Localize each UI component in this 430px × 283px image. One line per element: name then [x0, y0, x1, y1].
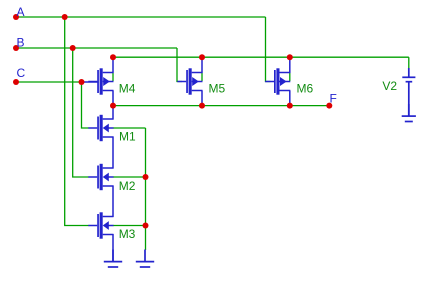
node dot A / M3-gate junction	[62, 14, 68, 20]
node dot F at M4/M1	[110, 103, 116, 109]
wire M1 body to body bus	[113, 127, 146, 129]
voltage source V2 battery	[408, 68, 410, 77]
transistor M4 drain pin	[112, 57, 114, 73]
wire body bus vertical to ground	[145, 128, 147, 250]
node dot body bus at M3	[143, 223, 149, 229]
transistor M1 drain pin	[112, 106, 114, 120]
ground under V2	[402, 104, 416, 122]
node dot A left end	[13, 14, 19, 20]
transistor M3	[88, 212, 113, 238]
svg-text:M1: M1	[119, 130, 136, 144]
transistor M5	[177, 68, 202, 94]
node dot rail at M4 drain	[110, 54, 116, 60]
wire B drop to M5 gate	[177, 48, 182, 82]
transistor M1	[88, 115, 113, 141]
transistor M3 source pin	[112, 234, 114, 261]
transistor M2	[88, 164, 113, 190]
node dot rail at M6 drain	[287, 54, 293, 60]
wire A drop to M6 gate	[266, 17, 271, 82]
svg-text:M2: M2	[119, 179, 136, 193]
transistor M4 gate lead from C	[82, 81, 98, 83]
wire M3 body to body bus	[113, 225, 146, 227]
ground under M3 source	[104, 250, 122, 268]
ground under body bus	[136, 250, 154, 268]
node dot rail at M5 drain	[199, 54, 205, 60]
svg-text:A: A	[17, 5, 25, 19]
transistor M6 drain pin	[289, 57, 291, 73]
wire input A horizontal	[16, 16, 266, 18]
wire V2 top lead	[408, 57, 410, 68]
transistor M6 source pin	[289, 91, 291, 106]
transistor M4	[88, 68, 113, 94]
wire output F line	[113, 105, 329, 107]
transistor M1 source pin	[112, 137, 114, 169]
node dot B left end	[13, 45, 19, 51]
node dot F at M5	[199, 103, 205, 109]
node dot C / M1-gate junction	[79, 79, 85, 85]
node dot B / M2-gate junction	[70, 45, 76, 51]
wire M5 body jog	[201, 73, 203, 81]
wire M6 body jog	[289, 73, 291, 81]
svg-text:B: B	[17, 35, 25, 49]
svg-text:M6: M6	[297, 82, 314, 96]
svg-text:V2: V2	[382, 79, 397, 93]
transistor M4 source pin	[112, 91, 114, 106]
node dot F right end	[326, 103, 332, 109]
wire A drop to M3 gate	[65, 17, 89, 226]
svg-text:M3: M3	[119, 227, 136, 241]
wire input C horizontal	[16, 81, 83, 83]
svg-text:F: F	[330, 92, 337, 106]
wire B drop to M2 gate	[73, 48, 89, 177]
svg-text:M5: M5	[209, 82, 226, 96]
wire VDD rail	[113, 56, 409, 58]
wire input B horizontal	[16, 47, 177, 49]
node dot body bus at M2	[143, 174, 149, 180]
transistor M5 drain pin	[201, 57, 203, 73]
node dot C left end	[13, 79, 19, 85]
svg-text:C: C	[17, 66, 26, 80]
wire C drop to M1 gate	[82, 82, 89, 128]
transistor M6	[265, 68, 290, 94]
svg-text:M4: M4	[119, 82, 136, 96]
wire M4 body jog	[112, 73, 114, 81]
transistor M2 source pin	[112, 186, 114, 218]
transistor M5 source pin	[201, 91, 203, 106]
node dot F at M6	[287, 103, 293, 109]
wire M2 body to body bus	[113, 176, 146, 178]
